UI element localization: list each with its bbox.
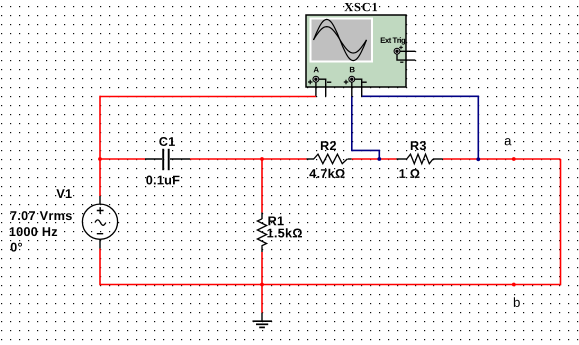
Ext Trig pin stub minus [397, 54, 415, 60]
V1 value 0 deg [11, 243, 22, 252]
C1 value [146, 176, 179, 185]
node a label [505, 138, 512, 145]
resistor R2 [307, 154, 352, 164]
capacitor C1 [145, 149, 190, 170]
Ext Trig pin stub plus [400, 50, 415, 52]
Ext Trig minus sign [400, 61, 403, 63]
terminal A [313, 76, 319, 82]
wire R1 top connection [261, 159, 263, 213]
terminal A plus sign [308, 80, 313, 85]
source V1 [82, 196, 117, 249]
Ext Trig terminal [394, 48, 400, 54]
V1 value 1000 Hz [10, 227, 58, 236]
op-scope XSC1 body [306, 15, 406, 87]
terminal A label [314, 67, 319, 72]
terminal B pin stub minus [355, 79, 362, 96]
node a dot [512, 157, 516, 161]
wire left vertical lower [99, 249, 101, 286]
node b label [514, 297, 520, 307]
wire right vertical [560, 159, 562, 285]
scope waveform big [314, 19, 367, 60]
R1 label [268, 217, 283, 226]
wire left vertical upper [99, 96, 101, 196]
terminal B [349, 76, 355, 82]
wire mid run C1 to R2 [190, 158, 307, 160]
R2 label [321, 141, 336, 150]
R1 value [267, 228, 302, 237]
junction R1 bottom [260, 283, 264, 287]
terminal A pin stub minus [319, 79, 326, 96]
junction R1 top [260, 157, 264, 161]
terminal A minus sign [327, 81, 331, 83]
terminal A pin stub plus [315, 82, 317, 96]
terminal B minus sign [362, 81, 367, 83]
Ext Trig plus sign [399, 46, 403, 50]
scope waveform small [314, 27, 367, 53]
resistor R1 [257, 213, 266, 253]
R3 label [411, 141, 426, 150]
terminal B label [350, 67, 355, 72]
wire blue B minus run to node a column [362, 96, 478, 157]
R2 value [309, 169, 344, 178]
C1 label [159, 137, 175, 146]
junction blue B plus [377, 157, 381, 161]
wire scope A to top run [100, 96, 316, 98]
wire R3 to right edge [443, 158, 561, 160]
node b dot [512, 283, 516, 287]
V1 label [56, 189, 71, 198]
wire R2 to R3 [352, 158, 397, 160]
ground [253, 313, 273, 328]
oscilloscope XSC1 label [344, 3, 377, 11]
scope screen [312, 20, 372, 61]
junction blue node a column [476, 157, 480, 161]
wire ground connection [261, 285, 263, 313]
scope screen bezel [310, 18, 374, 63]
wire bottom run [100, 284, 561, 286]
Ext Trig label [381, 37, 406, 44]
junction at left vertical and C1 wire [98, 157, 102, 161]
wire R1 bottom connection [261, 252, 263, 285]
R3 value [400, 169, 420, 178]
resistor R3 [397, 154, 443, 164]
terminal B plus sign [344, 80, 349, 85]
wire blue B channel down [352, 97, 380, 158]
terminal B pin stub plus [351, 82, 353, 97]
wire mid run left [100, 158, 145, 160]
V1 value 7.07 Vrms [10, 211, 71, 220]
